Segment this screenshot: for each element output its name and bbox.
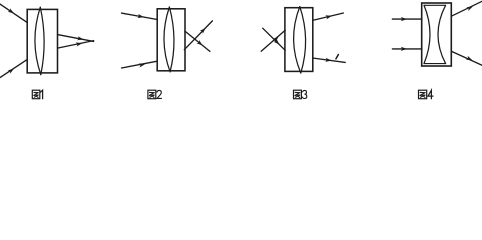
arrowhead on fig2 up-right outgoing ray — [200, 28, 206, 34]
label 图2 glyph box — [148, 90, 156, 99]
lens box L4 (figure 4) — [422, 3, 452, 66]
arrowhead on fig1 lower outgoing ray — [76, 42, 83, 46]
lens box L2 (figure 2) — [157, 9, 185, 71]
wire: fig3 outgoing ray lower (diverging) — [313, 58, 346, 62]
arrowhead on fig3 lower outgoing ray — [325, 58, 331, 62]
wire: fig3 outgoing ray upper (diverging) — [313, 13, 344, 20]
concave lens L4 right arc — [438, 5, 446, 63]
convex lens L1 right arc — [40, 7, 44, 74]
label 图1 digit "1" — [40, 90, 42, 99]
wire: fig4 outgoing ray upper (diverging) — [451, 1, 482, 16]
arrowhead on fig2 down-right outgoing ray — [197, 40, 203, 46]
wire: fig3 incoming ray from lower-left (crossing) — [261, 30, 285, 51]
convex lens L2 right arc — [169, 7, 174, 72]
arrowhead on fig3 upper outgoing ray — [325, 15, 332, 19]
concave lens L4 top edge — [424, 4, 446, 6]
arrowhead on fig3 ascending incoming ray — [273, 37, 279, 43]
wire: fig2 outgoing ray crossing down-right — [185, 31, 210, 51]
label 图4 glyph box — [419, 90, 427, 99]
label 图1 glyph box — [32, 90, 40, 99]
label 图2 digit "2" — [157, 90, 162, 98]
wire: fig4 incoming ray bottom (horizontal) — [392, 48, 421, 50]
wire: fig3 incoming ray from upper-left (crossing) — [263, 28, 286, 50]
label 图3 glyph box — [294, 90, 302, 99]
arrowhead on fig3 descending incoming ray — [274, 39, 280, 45]
wire: fig4 incoming ray top (horizontal) — [392, 18, 421, 20]
wire: fig1 outgoing ray upper (converging) — [58, 35, 94, 42]
wire: fig1 incoming ray bottom-left — [0, 60, 27, 78]
convex lens L3 right arc — [300, 7, 306, 73]
arrowhead on fig2 top incoming ray — [137, 14, 144, 18]
concave lens L4 bottom edge — [424, 63, 446, 65]
arrowhead on fig1 bottom incoming ray — [8, 69, 14, 74]
wire: fig2 incoming ray top-left — [122, 13, 158, 19]
arrowhead on fig1 top incoming ray — [8, 8, 14, 13]
arrowhead on fig2 bottom incoming ray — [139, 63, 146, 67]
convex lens L2 left arc — [164, 7, 170, 72]
convex lens L1 left arc — [35, 7, 41, 74]
wire: fig2 outgoing ray crossing up-right — [184, 21, 212, 50]
wire: fig2 incoming ray bottom-left — [122, 61, 158, 68]
arrowhead on fig4 upper outgoing ray — [466, 6, 473, 11]
wire: fig4 outgoing ray lower (diverging) — [451, 51, 482, 65]
lens box L1 (figure 1) — [27, 9, 57, 73]
concave lens L4 left arc — [424, 5, 430, 63]
arrowhead on fig4 top incoming ray — [401, 17, 407, 21]
convex lens L3 left arc — [294, 7, 301, 73]
wire: fig1 outgoing ray lower (converging) — [58, 41, 94, 49]
wire: fig1 incoming ray top-left — [0, 4, 27, 22]
tick mark above fig3 lower outgoing ray — [336, 55, 339, 59]
lens box L3 (figure 3) — [285, 8, 313, 72]
label 图3 digit "3" — [302, 90, 306, 98]
arrowhead on fig1 upper outgoing ray — [77, 36, 84, 40]
arrowhead on fig4 bottom incoming ray — [401, 47, 407, 51]
label 图4 digit "4" — [428, 90, 433, 99]
arrowhead on fig4 lower outgoing ray — [466, 56, 473, 61]
